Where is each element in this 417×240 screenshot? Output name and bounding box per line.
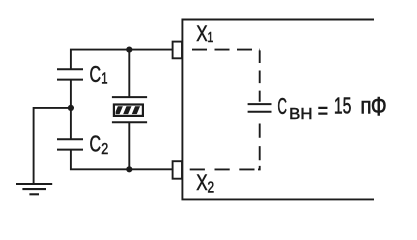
- wire to ground: [34, 108, 71, 183]
- dashed wire from X1: [192, 49, 260, 51]
- crystal resonator body (hatched): [114, 105, 143, 116]
- capacitor Cvn: [248, 104, 272, 112]
- wire: C1 bottom to C2 top: [70, 80, 72, 140]
- svg-text:1: 1: [208, 29, 214, 46]
- crystal resonator ZQ plates: [112, 97, 147, 122]
- device box (open right side): [182, 20, 374, 200]
- wire bottom: C2 to X2 connector: [71, 150, 173, 170]
- node junction bottom (crystal tap): [126, 166, 132, 172]
- svg-text:C: C: [90, 61, 102, 87]
- svg-text:2: 2: [101, 141, 108, 158]
- svg-text:ВН: ВН: [289, 106, 312, 123]
- svg-text:1: 1: [101, 70, 107, 87]
- node junction left: [68, 105, 74, 111]
- ground: [16, 184, 52, 194]
- svg-text:X: X: [196, 170, 208, 195]
- wire: top node to crystal: [128, 50, 130, 98]
- wire: crystal to bottom node: [128, 122, 130, 169]
- svg-text:2: 2: [208, 180, 215, 197]
- connector X1: [173, 42, 182, 59]
- node junction top (crystal tap): [126, 47, 132, 53]
- svg-text:15: 15: [334, 93, 352, 119]
- svg-text:=: =: [318, 98, 329, 124]
- dashed wire down to Cvn: [259, 50, 261, 101]
- capacitor C2: [57, 139, 83, 149]
- svg-text:Ф: Ф: [371, 92, 387, 122]
- svg-text:C: C: [90, 131, 102, 157]
- svg-text:X: X: [196, 21, 208, 46]
- wire top: C1 corner to X1 connector: [71, 50, 173, 70]
- dashed wire to X2 connector: [184, 168, 255, 170]
- dashed wire corner at X2 level: [258, 166, 260, 170]
- connector X2: [173, 161, 182, 179]
- svg-text:C: C: [277, 93, 287, 119]
- capacitor C1: [57, 69, 83, 79]
- dashed wire from Cvn to X2 line: [259, 124, 261, 161]
